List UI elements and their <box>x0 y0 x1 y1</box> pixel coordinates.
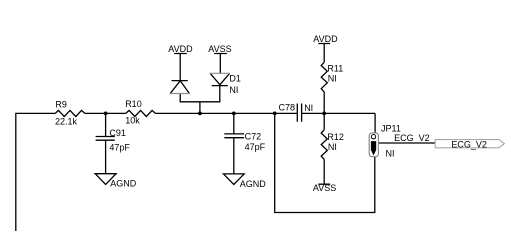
svg-text:22.1k: 22.1k <box>55 117 78 127</box>
svg-text:AVDD: AVDD <box>168 44 193 54</box>
svg-text:47pF: 47pF <box>109 143 130 153</box>
svg-text:47pF: 47pF <box>245 142 266 152</box>
svg-text:NI: NI <box>328 74 337 84</box>
svg-text:NI: NI <box>328 142 337 152</box>
svg-text:R12: R12 <box>327 132 344 142</box>
svg-text:JP11: JP11 <box>381 123 401 133</box>
svg-text:AGND: AGND <box>110 179 137 189</box>
svg-text:R9: R9 <box>55 99 67 109</box>
svg-text:NI: NI <box>386 148 395 158</box>
svg-text:NI: NI <box>304 103 313 113</box>
svg-text:C91: C91 <box>109 128 126 138</box>
svg-text:R10: R10 <box>125 99 142 109</box>
svg-text:R11: R11 <box>327 63 343 73</box>
svg-text:AVSS: AVSS <box>208 44 231 54</box>
svg-text:D1: D1 <box>229 74 241 84</box>
svg-text:C78: C78 <box>279 103 296 113</box>
svg-text:ECG_V2: ECG_V2 <box>394 133 430 143</box>
svg-text:NI: NI <box>229 85 238 95</box>
svg-text:AVSS: AVSS <box>313 183 336 193</box>
svg-text:C72: C72 <box>245 132 262 142</box>
svg-text:10k: 10k <box>125 115 140 125</box>
svg-text:ECG_V2: ECG_V2 <box>451 139 487 149</box>
svg-text:AVDD: AVDD <box>313 34 338 44</box>
svg-text:AGND: AGND <box>240 179 267 189</box>
